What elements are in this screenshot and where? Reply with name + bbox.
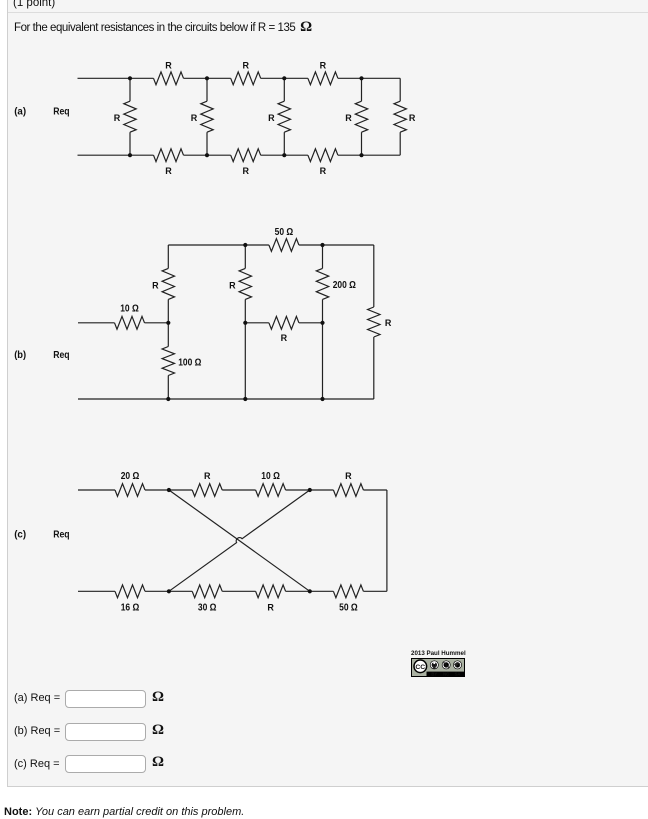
resistor R (a) bottom #2 [231,149,261,162]
svg-text:R: R [229,280,236,290]
node (c) top right [308,488,312,492]
svg-text:R: R [165,166,172,176]
node (c) bottom left [167,589,171,593]
node (b) mid x=322 [320,321,324,325]
node (b) top x=322 [320,243,324,247]
svg-text:BY: BY [431,672,437,677]
resistor R (b) middle horizontal [269,316,299,329]
resistor 16 Ohm (c) [115,585,145,598]
svg-text:20 Ω: 20 Ω [121,471,140,482]
node (a) bottom x=207 [205,153,209,157]
CC BY-NC-SA badge [411,658,465,677]
node (b) bottom x=322 [320,397,324,401]
svg-text:R: R [345,113,352,123]
wire: (b) top rail [168,244,269,246]
wire: (c) diagonal rising with hop [169,490,310,591]
BY icon [430,661,439,670]
note [4,806,244,818]
wire: (a) bottom rail [78,154,154,156]
wire: (b) input stub [78,322,115,324]
resistor R (a) top #2 [231,72,261,85]
node (a) bottom x=362 [359,153,363,157]
resistor R (a) vertical #1 [129,78,131,101]
svg-text:CC: CC [415,664,425,671]
wire: (c) diagonal falling [169,490,310,591]
NC icon [442,661,451,670]
resistor R (b) vertical right edge [373,245,375,307]
svg-text:R: R [114,113,121,123]
resistor R (a) vertical right edge [399,78,401,101]
resistor R (a) bottom #3 [308,149,338,162]
svg-text:R: R [165,60,172,70]
svg-text:SA: SA [455,672,461,677]
node (b) mid x=168 [166,321,170,325]
resistor 10 Ohm (b) [115,316,145,329]
badge bottom strip [427,672,466,677]
svg-text:$: $ [445,662,448,669]
resistor 20 Ohm (c) [115,484,145,497]
svg-text:R: R [320,166,327,176]
resistor R (a) top #3 [308,72,338,85]
resistor 30 Ohm (c) [192,585,222,598]
svg-text:R: R [385,318,392,328]
svg-text:100 Ω: 100 Ω [178,357,201,368]
resistor 10 Ohm (c) [256,484,286,497]
wire: (c) bottom rail [78,590,115,592]
answer row (b) [14,725,60,737]
svg-text:R: R [320,60,327,70]
node (c) bottom right [308,589,312,593]
svg-text:50 Ω: 50 Ω [275,227,294,238]
node (b) bottom x=168 [166,397,170,401]
node (a) top x=362 [359,76,363,80]
resistor R (b) vertical left [167,245,169,268]
svg-text:R: R [409,113,416,123]
resistor R (c) top #1 [192,484,222,497]
wire: (b) middle segment [245,322,269,324]
resistor R (c) top #2 [333,484,363,497]
svg-text:R: R [345,471,352,481]
svg-text:R: R [242,60,249,70]
resistor R (a) vertical #2 [206,78,208,101]
resistor 100 Ohm (b) [167,323,169,347]
CC logo circle [414,660,427,673]
problem statement [14,20,312,35]
resistor R (a) vertical #4 [361,78,363,101]
svg-text:Req: Req [53,529,69,541]
svg-text:16 Ω: 16 Ω [121,602,140,613]
svg-text:(c): (c) [14,529,26,541]
svg-text:10 Ω: 10 Ω [120,303,139,314]
svg-text:10 Ω: 10 Ω [261,471,280,482]
svg-text:(a): (a) [14,106,26,118]
svg-text:R: R [204,471,211,481]
node (c) top left [167,488,171,492]
svg-text:Req: Req [53,349,69,361]
answer row (a) [14,692,60,704]
svg-text:R: R [281,333,288,343]
svg-text:(b): (b) [14,349,26,361]
resistor 50 Ohm (c) [333,585,363,598]
wire: (a) top rail [78,77,154,79]
svg-text:50 Ω: 50 Ω [339,602,358,613]
wire: (b) bottom rail [78,398,374,400]
wire: (c) right edge [386,490,388,591]
svg-text:30 Ω: 30 Ω [198,602,217,613]
svg-text:R: R [152,280,159,290]
svg-text:R: R [268,113,275,123]
node (b) mid x=245 [243,321,247,325]
resistor R (b) vertical center [244,245,246,268]
resistor R (c) bottom [256,585,286,598]
header divider bar [8,0,648,13]
points header [13,0,55,9]
resistor 200 Ohm (b) [322,245,324,268]
svg-text:200 Ω: 200 Ω [333,280,356,291]
node (b) top x=245 [243,243,247,247]
svg-text:R: R [242,166,249,176]
answer row (c) [14,758,60,770]
copyright text [411,650,465,657]
resistor 50 Ohm (b) [269,239,299,252]
svg-text:Req: Req [53,106,69,118]
svg-text:R: R [191,113,198,123]
node (a) top x=284 [282,76,286,80]
node (b) bottom x=245 [243,397,247,401]
badge background [411,658,465,677]
node (a) bottom x=284 [282,153,286,157]
node (a) top x=207 [205,76,209,80]
resistor R (a) top #1 [154,72,184,85]
node (a) bottom x=130 [128,153,132,157]
node (a) top x=130 [128,76,132,80]
resistor R (a) vertical #3 [283,78,285,101]
svg-text:NC: NC [443,672,449,677]
resistor R (a) bottom #1 [154,149,184,162]
SA icon [453,661,462,670]
svg-text:R: R [267,602,274,612]
badge border [412,659,465,677]
wire: (c) top rail [78,489,115,491]
